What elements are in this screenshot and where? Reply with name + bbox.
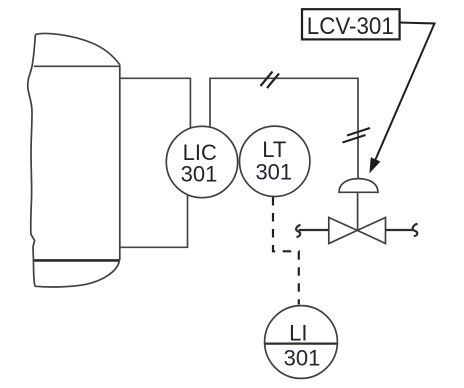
- pneumatic marks on horizontal signal: [261, 72, 280, 89]
- instrument LT-301 circle: [240, 126, 310, 196]
- pipe right of valve: [386, 229, 414, 231]
- svg-text:301: 301: [284, 346, 321, 371]
- svg-text:301: 301: [181, 162, 218, 187]
- LI panel midline: [265, 343, 338, 345]
- tag box LCV-301: [302, 9, 400, 39]
- svg-text:LT: LT: [262, 137, 286, 162]
- pipe break squiggle left: [296, 225, 300, 237]
- instrument LIC-301 circle: [166, 126, 237, 197]
- wire vessel bottom tap to LIC: [120, 195, 188, 247]
- vessel top seam: [34, 65, 120, 67]
- pipe left of valve: [299, 229, 329, 231]
- wire signal LIC to valve actuator: [210, 78, 358, 178]
- pneumatic marks on vertical signal: [343, 128, 371, 143]
- vessel bottom head arc: [35, 262, 119, 287]
- svg-text:301: 301: [255, 160, 292, 185]
- pipe break squiggle right: [413, 224, 418, 237]
- svg-text:LCV-301: LCV-301: [307, 13, 394, 40]
- control valve LCV-301 body (bowtie): [329, 218, 386, 244]
- vessel top head arc: [35, 34, 119, 65]
- instrument LI-301 circle: [265, 306, 338, 379]
- wire vessel top tap to LIC: [120, 78, 191, 128]
- actuator diaphragm dome: [339, 179, 378, 193]
- vessel bottom seam: [34, 259, 120, 262]
- vessel break (wavy left edge): [28, 35, 36, 287]
- wire leader arrow from LCV-301 to valve: [376, 23, 435, 160]
- svg-text:LI: LI: [289, 321, 307, 346]
- valve stem: [357, 192, 359, 230]
- wire dashed signal LT to LI: [273, 197, 299, 305]
- arrowhead: [370, 158, 380, 172]
- vessel V (tank shell, right edge): [119, 65, 121, 261]
